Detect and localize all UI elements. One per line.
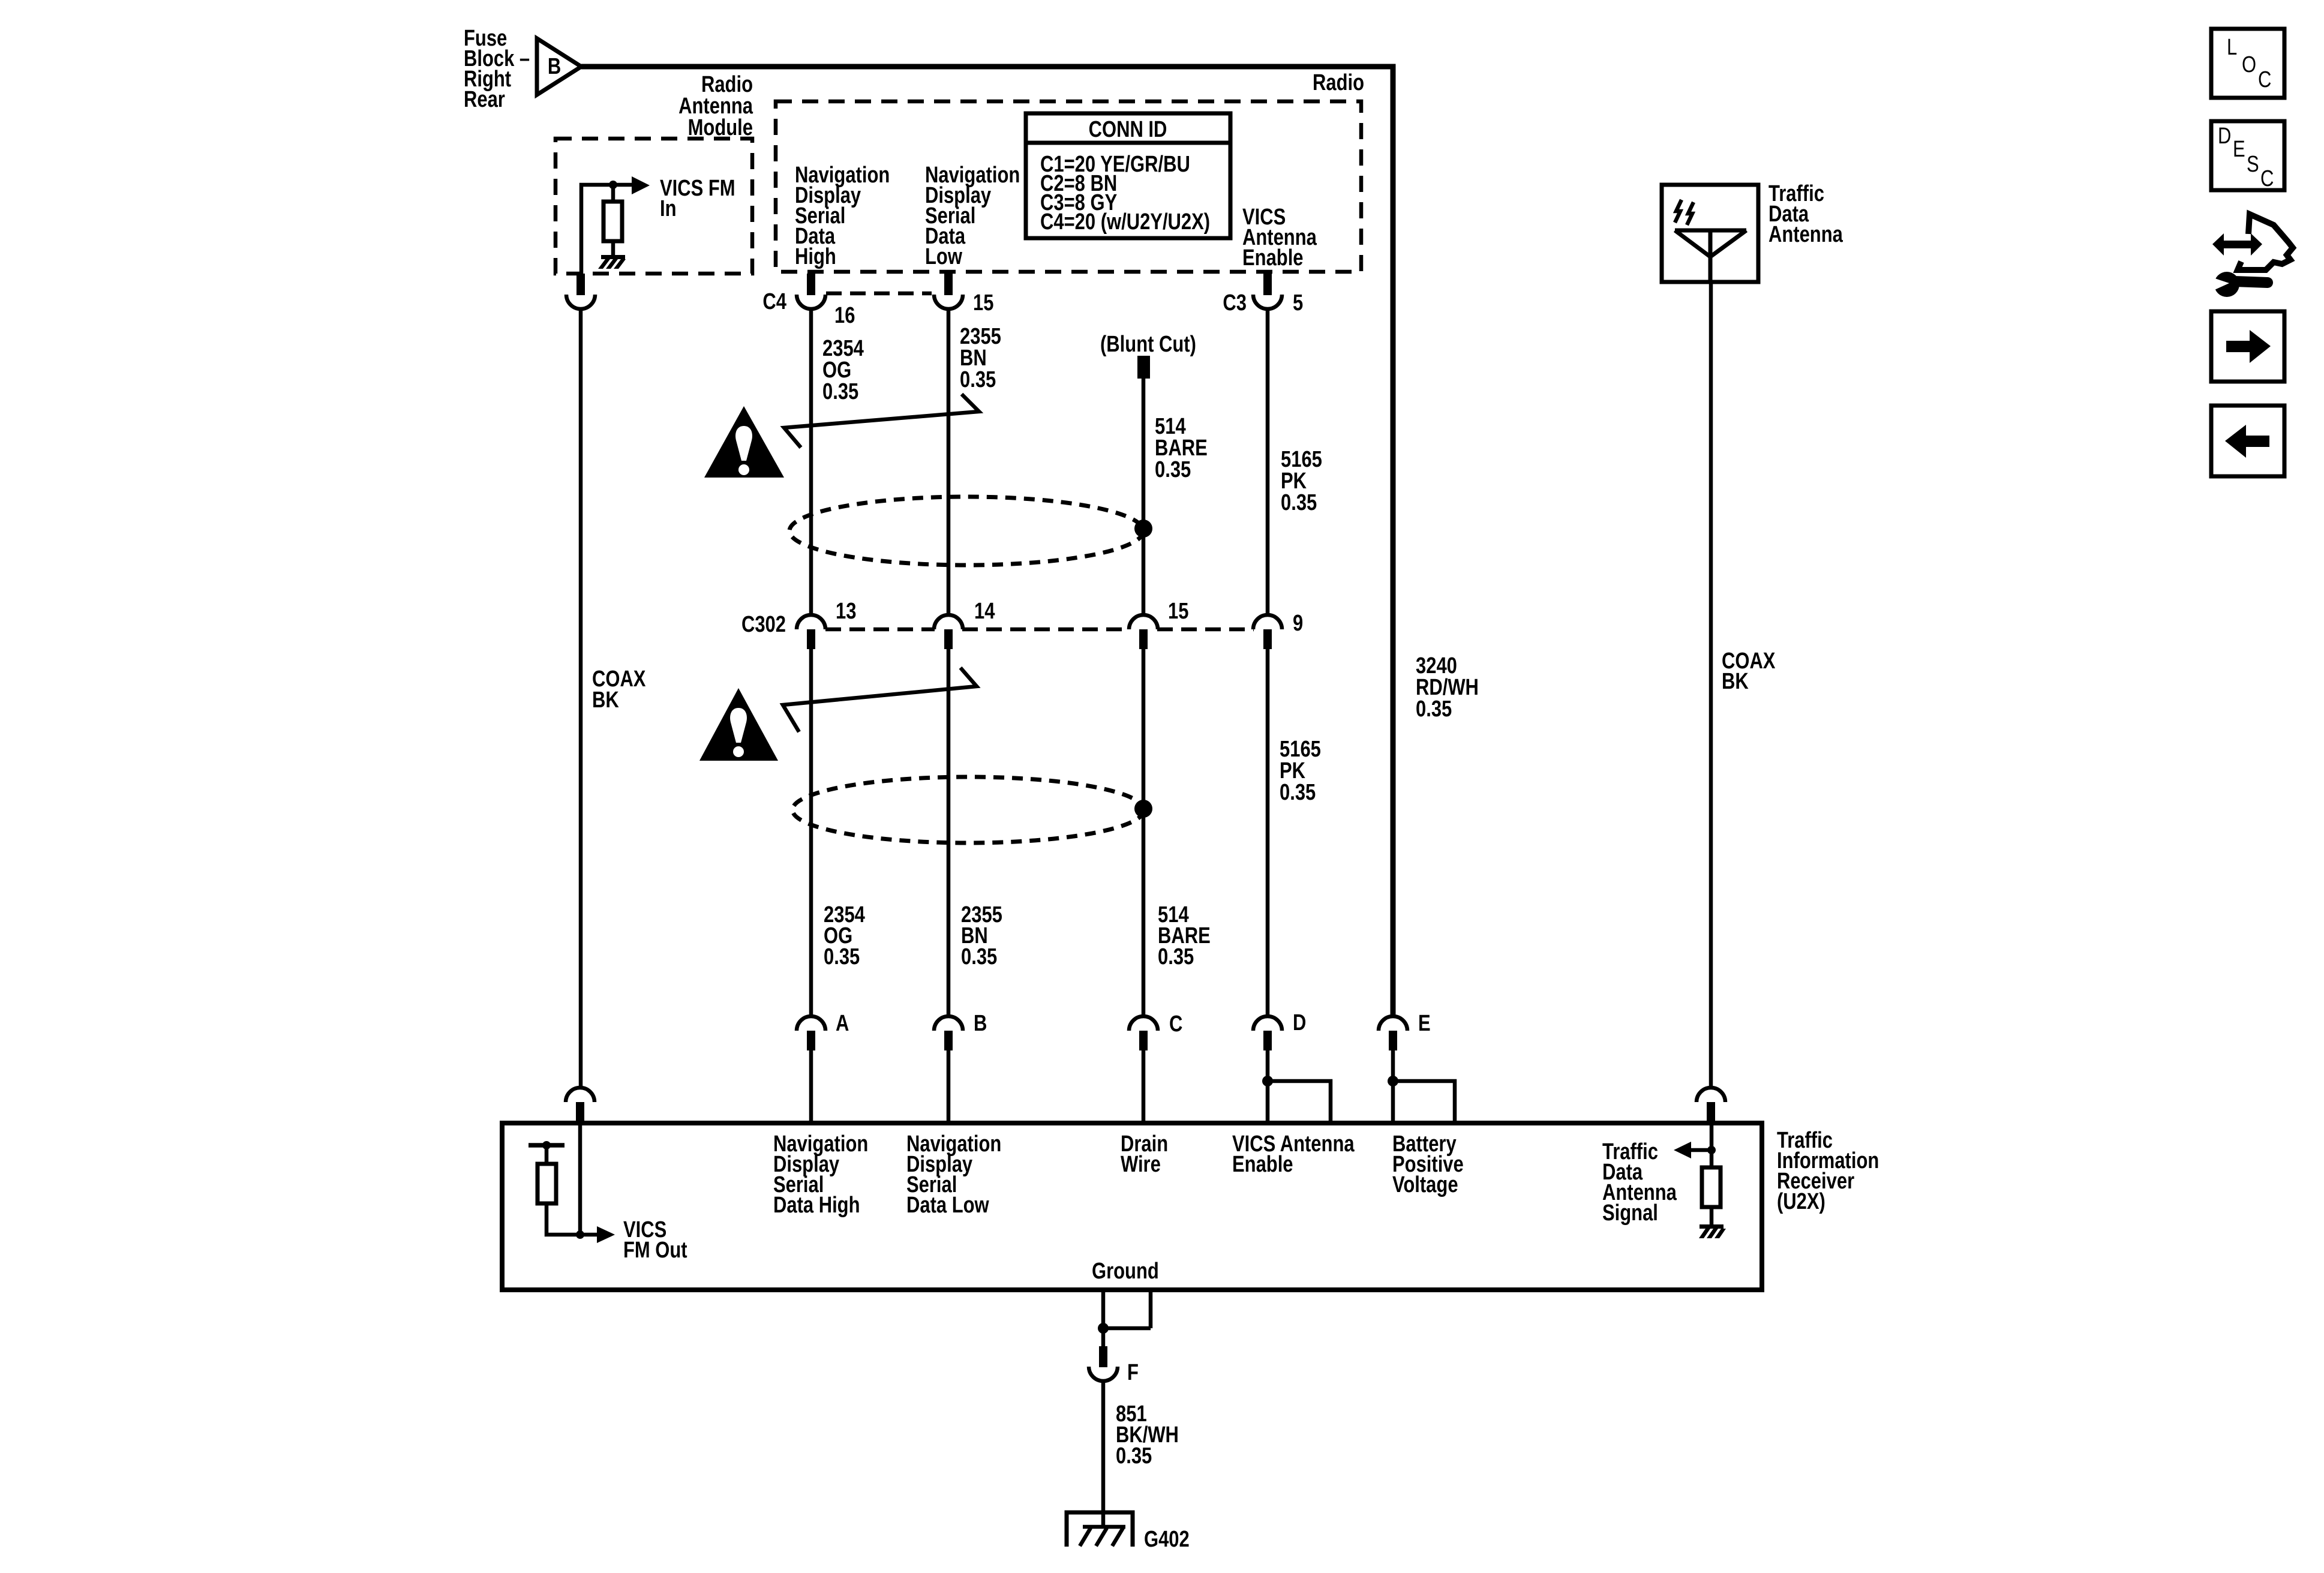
junction dot ground: [1098, 1323, 1109, 1334]
connector C302 pin 9: [1253, 615, 1282, 649]
svg-text:C: C: [2258, 67, 2271, 92]
connector pin C: [1129, 1016, 1158, 1050]
antenna signal bolts: [1675, 200, 1694, 225]
arrow VICS FM In: [632, 176, 650, 194]
connector C302 pin 15: [1129, 615, 1158, 649]
connector COAX left into receiver: [566, 1088, 594, 1123]
wire junction to arrow: [580, 1233, 597, 1237]
twisted pair leader upper: [784, 394, 979, 448]
svg-text:C: C: [1169, 1011, 1182, 1037]
warning triangle lower: [699, 688, 778, 761]
component Traffic Data Antenna box: [1662, 185, 1758, 282]
icon LOC box: [2211, 29, 2284, 98]
arrow Traffic Data Antenna Signal: [1674, 1142, 1691, 1158]
junction dot VICS FM Out: [576, 1230, 584, 1239]
svg-text:O: O: [2242, 52, 2256, 77]
wire VICS FM Out internal: [578, 1123, 582, 1235]
wire 514 BARE lower: [1142, 649, 1146, 1016]
connector C302 row: [825, 628, 1254, 632]
wire 2354 OG lower: [809, 649, 813, 1016]
connector C302 pin 14: [934, 615, 963, 649]
wire B to receiver: [947, 1050, 951, 1123]
wire 514 BARE drain upper: [1142, 379, 1146, 615]
connector C4 pin 16: [797, 274, 825, 309]
wire A to receiver: [809, 1050, 813, 1123]
svg-text:14: 14: [974, 599, 995, 624]
svg-text:C302: C302: [741, 612, 786, 637]
wire VICS FM In internal: [581, 185, 632, 274]
arrow VICS FM Out: [597, 1226, 615, 1243]
svg-text:Radio: Radio: [1313, 70, 1364, 95]
power feed triangle B (fuse block source): [537, 38, 581, 95]
svg-text:15: 15: [1168, 599, 1188, 624]
wire resistor bottom lead (receiver right): [1710, 1207, 1714, 1225]
svg-text:BatteryPositiveVoltage: BatteryPositiveVoltage: [1392, 1131, 1464, 1197]
svg-text:CONN ID: CONN ID: [1089, 117, 1167, 142]
connector C4 pin 15: [934, 274, 963, 309]
connector C302 pin 13: [797, 615, 825, 649]
connector module output pin: [566, 274, 595, 309]
wire 5165 PK lower: [1266, 649, 1270, 1016]
twisted pair ellipse lower: [792, 777, 1144, 843]
junction drain splice lower: [1134, 800, 1152, 818]
ground G402 symbol: [1067, 1512, 1133, 1547]
wire resistor top lead (module): [611, 185, 615, 202]
connector pin F: [1089, 1346, 1118, 1381]
connector COAX right into receiver: [1697, 1088, 1725, 1123]
antenna stub bar (receiver): [529, 1143, 565, 1148]
svg-text:(Blunt Cut): (Blunt Cut): [1100, 332, 1196, 357]
wire D to receiver with branch: [1262, 1050, 1331, 1123]
ground chassis (module): [598, 255, 626, 269]
antenna symbol: [1675, 230, 1746, 282]
svg-text:9: 9: [1293, 611, 1303, 636]
connector C3 pin 5: [1253, 274, 1282, 309]
resistor receiver right: [1702, 1167, 1721, 1207]
svg-text:A: A: [836, 1011, 849, 1036]
icon vehicle location: [2209, 214, 2293, 297]
svg-text:B: B: [974, 1011, 987, 1036]
svg-text:E: E: [2233, 137, 2245, 162]
wire battery feed from triangle B to connector E: [581, 67, 1393, 1016]
warning triangle upper: [704, 406, 784, 478]
junction dot stub: [542, 1141, 551, 1149]
icon forward arrow box: [2211, 311, 2284, 382]
wire ground loop below receiver: [1103, 1290, 1151, 1328]
svg-text:D: D: [2218, 124, 2231, 149]
svg-text:B: B: [548, 54, 561, 79]
CONN ID table: [1026, 113, 1230, 238]
wire resistor bottom lead (module): [611, 241, 615, 256]
icon back arrow box: [2211, 406, 2284, 476]
component Radio dashed box: [776, 101, 1361, 272]
twisted pair ellipse upper: [789, 497, 1143, 565]
svg-text:16: 16: [834, 303, 855, 328]
svg-text:D: D: [1293, 1010, 1306, 1035]
icon DESC box: [2211, 121, 2284, 191]
connector pin B: [934, 1016, 963, 1050]
wire resistor top lead (receiver left): [545, 1145, 549, 1164]
svg-text:Ground: Ground: [1092, 1259, 1159, 1284]
wire dot to connector F: [1101, 1328, 1106, 1347]
svg-text:15: 15: [973, 290, 993, 316]
resistor module termination: [603, 202, 622, 241]
wire 2355 BN lower: [947, 649, 951, 1016]
svg-text:13: 13: [836, 599, 856, 624]
wire to left arrow: [1691, 1148, 1712, 1152]
wire E to receiver with branch: [1388, 1050, 1455, 1123]
junction dot module: [609, 181, 617, 189]
resistor receiver left: [538, 1164, 556, 1203]
wire C to receiver: [1142, 1050, 1146, 1123]
connector pin E: [1379, 1016, 1407, 1050]
wire 2354 OG upper: [809, 308, 813, 615]
wire COAX BK (module to receiver): [579, 308, 583, 1088]
wire 851 BK/WH: [1101, 1380, 1106, 1525]
component Traffic Information Receiver box: [502, 1123, 1762, 1290]
twisted pair leader lower: [783, 668, 977, 732]
connector body dashed C4-15: [826, 292, 932, 296]
svg-text:C3: C3: [1223, 290, 1247, 316]
node Fuse Block - Right Rear label: [464, 26, 530, 112]
svg-text:C4: C4: [762, 289, 786, 314]
junction drain splice upper: [1134, 520, 1152, 538]
svg-text:S: S: [2247, 152, 2259, 177]
junction dot right: [1707, 1146, 1716, 1154]
wire COAX BK (antenna to receiver): [1709, 282, 1713, 1088]
svg-text:L: L: [2227, 35, 2237, 60]
connector pin D: [1253, 1016, 1282, 1050]
svg-text:5: 5: [1293, 290, 1303, 316]
svg-text:G402: G402: [1144, 1527, 1190, 1552]
svg-text:F: F: [1127, 1360, 1139, 1385]
component Radio Antenna Module dashed box: [556, 139, 752, 274]
wire resistor top lead (receiver right): [1710, 1150, 1714, 1167]
wire Traffic Data Antenna Signal internal: [1710, 1123, 1714, 1150]
connector pin A: [797, 1016, 825, 1050]
wire resistor bottom lead to junction: [547, 1203, 580, 1235]
blunt cut cap: [1137, 356, 1150, 379]
wire 5165 PK upper: [1266, 308, 1270, 615]
svg-text:E: E: [1418, 1011, 1431, 1036]
ground chassis (receiver right): [1699, 1224, 1726, 1238]
wire 2355 BN upper: [947, 308, 951, 615]
svg-text:C: C: [2260, 166, 2274, 191]
